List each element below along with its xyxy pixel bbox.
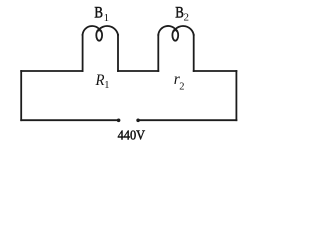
wire right vertical <box>235 71 237 120</box>
wire middle horizontal (between bulbs) <box>118 70 158 72</box>
lamp B2 left leg <box>157 35 159 71</box>
lamp B1 loop <box>96 30 102 41</box>
svg-text:2: 2 <box>179 82 184 93</box>
lamp B2 right leg <box>193 35 195 71</box>
svg-text:2: 2 <box>184 11 190 23</box>
lamp B2 loop <box>172 30 178 41</box>
lamp B1 right hump <box>98 26 118 35</box>
wire bottom-left <box>21 119 118 121</box>
svg-text:B: B <box>94 4 103 21</box>
svg-text:R: R <box>95 72 105 89</box>
wire left vertical <box>20 71 22 120</box>
wire top-right horizontal <box>194 70 237 72</box>
lamp B1 left hump <box>83 26 101 35</box>
svg-text:440V: 440V <box>118 129 146 144</box>
lamp B2 left hump <box>158 26 176 35</box>
svg-text:1: 1 <box>104 80 109 91</box>
lamp B2 right hump <box>174 26 194 35</box>
source terminal dot left <box>117 119 121 123</box>
svg-text:B: B <box>175 4 184 21</box>
source terminal dot right <box>136 119 140 123</box>
svg-text:1: 1 <box>104 12 110 24</box>
lamp B1 left leg <box>82 35 84 71</box>
wire bottom-right <box>138 119 236 121</box>
lamp B1 right leg <box>117 35 119 71</box>
wire top-left horizontal <box>21 70 82 72</box>
